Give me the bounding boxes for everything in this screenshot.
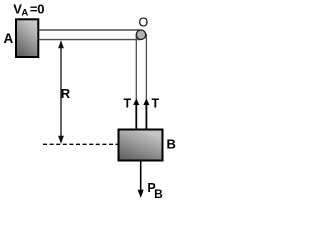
svg-text:T: T [152,97,160,111]
svg-text:VA=0: VA=0 [13,2,44,19]
svg-text:B: B [167,136,176,151]
svg-text:A: A [4,31,14,46]
svg-text:PB: PB [147,181,163,201]
svg-text:O: O [139,16,149,30]
svg-text:T: T [124,97,132,111]
svg-text:R: R [61,86,71,101]
